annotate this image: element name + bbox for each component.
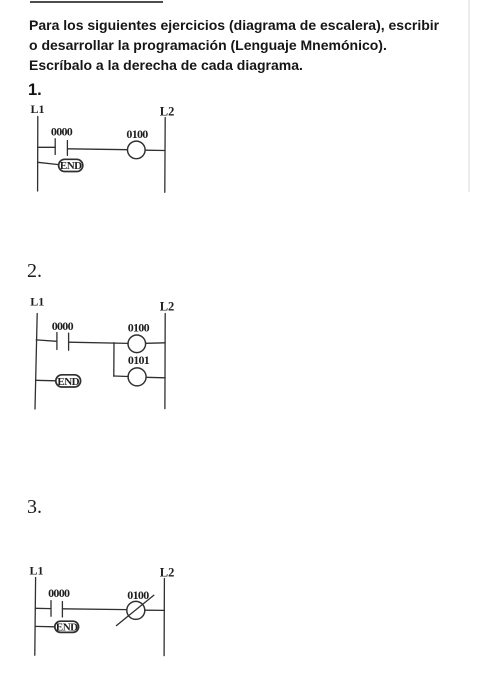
wire coil 0100 to rail (diagram 2) (146, 342, 166, 345)
svg-text:0100: 0100 (128, 321, 150, 335)
wire contact to coil (diagram 1) (67, 148, 127, 151)
contact 0000 (diagram 1) (55, 139, 67, 156)
wire rail to END (diagram 1) (38, 162, 59, 164)
svg-text:0000: 0000 (51, 125, 73, 139)
right page edge (468, 0, 470, 192)
svg-text:0100: 0100 (126, 127, 148, 141)
wire contact to coil 0100 (diagram 2) (69, 342, 129, 343)
wire rail to END (diagram 3) (35, 625, 55, 627)
wire rail to contact (diagram 3) (35, 607, 51, 609)
rail L1 (diagram 3) (34, 578, 37, 656)
svg-text:END: END (56, 622, 78, 634)
svg-text:L1: L1 (30, 295, 44, 309)
wire coil to rail (diagram 1) (145, 149, 165, 151)
rail L2 (diagram 3) (163, 579, 165, 656)
svg-text:L2: L2 (160, 300, 175, 314)
wire rail to contact (diagram 2) (36, 340, 57, 341)
exercise number 3 (27, 497, 42, 517)
rail L2 (diagram 2) (164, 314, 166, 409)
coil 0100 (diagram 1) (128, 141, 146, 159)
wire contact to coil (diagram 3) (62, 608, 126, 611)
instructions text (29, 15, 439, 75)
svg-text:L1: L1 (30, 564, 44, 578)
coil 0100 slashed (diagram 3) (116, 595, 153, 625)
coil 0101 (diagram 2) (128, 368, 146, 386)
wire rail to END (diagram 2) (36, 379, 56, 382)
svg-text:END: END (57, 376, 79, 388)
svg-text:L2: L2 (160, 565, 175, 579)
rail L1 (diagram 2) (35, 314, 37, 410)
wire coil 0101 to rail (diagram 2) (146, 376, 165, 379)
top rule (30, 1, 163, 3)
svg-text:0101: 0101 (128, 353, 150, 367)
svg-text:END: END (60, 160, 82, 172)
svg-text:0000: 0000 (48, 586, 70, 600)
contact 0000 (diagram 3) (51, 601, 62, 617)
svg-text:L2: L2 (160, 105, 175, 119)
rail L2 (diagram 1) (164, 118, 166, 193)
svg-text:0000: 0000 (52, 319, 74, 333)
rail L1 (diagram 1) (37, 117, 39, 192)
svg-text:L1: L1 (31, 102, 45, 116)
contact 0000 (diagram 2) (57, 333, 69, 351)
wire rail to contact (diagram 1) (38, 146, 55, 148)
wire coil to rail (diagram 3) (145, 609, 165, 611)
branch wire down (diagram 2) (113, 343, 115, 377)
END block (diagram 2) (56, 375, 81, 388)
exercise number 2 (27, 261, 42, 281)
svg-text:0100: 0100 (127, 588, 149, 602)
END block (diagram 3) (55, 621, 79, 633)
exercise number 1 (28, 82, 42, 98)
coil 0100 (diagram 2) (128, 335, 146, 353)
wire branch to coil 0101 (diagram 2) (114, 375, 128, 378)
END block (diagram 1) (59, 159, 83, 172)
